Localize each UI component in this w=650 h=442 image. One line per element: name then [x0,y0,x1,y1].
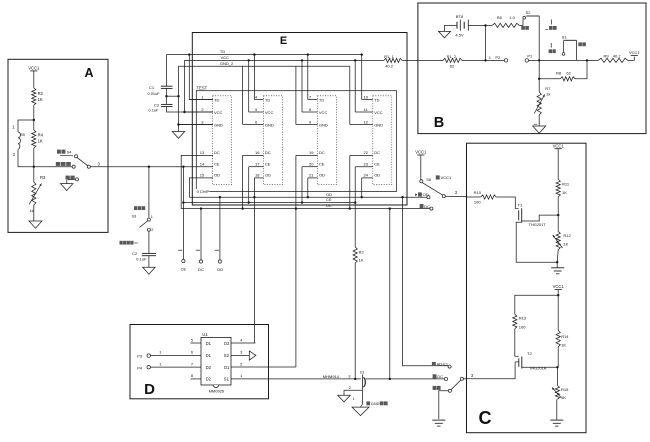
svg-text:CE: CE [326,197,332,202]
svg-text:1: 1 [353,397,355,401]
label pin 2 of R5 [13,152,16,157]
power VCC1 (C upper) [553,143,565,179]
wire VCC column block3 [301,60,303,112]
label 基准压 [56,162,71,166]
svg-text:O1: O1 [224,365,230,370]
junction R8 branch [586,59,588,61]
block2 pin 16 stub (DC) [243,150,271,155]
label pin 1 of R5 [12,124,15,129]
svg-text:D1: D1 [206,353,212,358]
region label A [84,66,93,80]
wire P1 rail [529,59,598,61]
svg-text:100: 100 [519,325,526,330]
svg-text:BT8: BT8 [456,14,464,19]
svg-text:GND: GND [374,122,383,127]
wire R1_1 to region B [402,59,418,61]
wire VCC1 to R13 [515,295,558,314]
svg-text:VCC: VCC [319,110,328,115]
block2 pin 5 stub (VCC) [249,107,274,115]
junction block4 DC rail [349,207,351,209]
block1 pin 3 stub (GND) [179,119,224,127]
ground (R15) [550,420,563,426]
svg-text:20: 20 [309,162,314,167]
resistor R1_2 62 [418,54,486,68]
variable resistor R7 1k [534,79,551,115]
svg-text:OD: OD [319,173,325,178]
svg-text:DC: DC [437,374,443,379]
svg-text:VCC: VCC [374,110,383,115]
svg-text:S1: S1 [224,377,230,382]
wire R4 top [33,120,35,130]
svg-text:100: 100 [474,200,481,205]
label MM0926 [209,389,225,394]
wire block2 CE column [248,167,250,203]
svg-text:P2: P2 [495,55,501,60]
svg-text:R2: R2 [38,91,44,96]
junction T1 drain node [557,214,559,216]
block3 pin 19 stub (DC) [296,150,325,155]
terminal CE wire [178,167,183,260]
wire node to switch contact [34,166,72,168]
junction block2 CE rail [248,201,250,203]
wire GND column block1 [178,66,180,131]
junction CE terminal [182,201,184,203]
switch S1 [562,35,577,56]
svg-text:40.2: 40.2 [385,63,394,68]
ground (C2) [143,267,156,274]
selector common [460,377,463,380]
svg-text:E: E [280,35,287,47]
svg-text:P1: P1 [527,53,533,58]
wire E1 to DC contact [366,378,445,380]
region box E [192,33,407,206]
resistor R11 1K [556,180,570,197]
svg-text:2: 2 [151,228,153,232]
junction R7/R8 [538,78,540,80]
svg-text:S4: S4 [67,150,73,155]
switch S4 blade [77,158,87,166]
junction TD block1 [188,53,190,55]
svg-text:23: 23 [364,162,369,167]
svg-text:40.2: 40.2 [613,54,622,59]
svg-text:CE: CE [374,162,380,167]
variable resistor R12 1K [553,215,572,262]
rail GND_2 [179,61,350,66]
label node 1 (B) [489,55,492,60]
region label B [434,115,444,131]
svg-text:R4: R4 [38,132,44,137]
wire DC rail to lower row [389,209,391,379]
resistor R6 1.0 [486,15,524,28]
svg-text:17: 17 [255,162,260,167]
svg-text:R3: R3 [40,175,46,180]
wire TD column block3 [307,55,309,100]
wire block4 DC column [349,155,351,208]
wire R15 to ground [556,399,558,419]
wire R2 to node [33,105,35,120]
IC U1 right labels [224,341,230,382]
IC U1 left labels [206,341,212,382]
svg-text:1: 1 [151,215,153,219]
wire S3 to C2 [148,231,150,253]
node R2/R4/R5 junction [33,119,35,121]
junction OD terminal [219,196,221,198]
svg-text:C1: C1 [149,85,155,90]
ground (T1 source) [551,262,564,274]
switch S5 blade [423,183,443,195]
svg-text:TEST: TEST [197,86,208,91]
ground (E1 pin1) [352,407,369,416]
svg-text:R5: R5 [20,132,26,137]
junction GND column upper [177,95,179,97]
svg-text:R6: R6 [497,15,503,20]
label MHM914 [323,374,340,379]
svg-text:1K: 1K [38,97,43,102]
connector P2 [486,55,508,62]
svg-text:12: 12 [364,119,369,124]
svg-text:GND: GND [214,122,223,127]
selector contact 接地 [448,389,451,392]
power VCC1 (B) [629,50,640,60]
wire link to GND column [167,95,179,97]
switch S3 contact 2 [147,228,153,232]
wire block3 OD column [307,178,309,197]
wire block4 OD column [361,178,363,197]
label 断开 (S1) [549,43,556,53]
svg-text:2: 2 [349,386,351,390]
wire block2 DC column [242,155,244,208]
svg-text:0.01uF: 0.01uF [148,91,161,96]
junction TD block4 [361,53,363,55]
label 接地 (selector) [433,386,441,390]
connector 接DC [420,204,433,210]
svg-text:0.1uF: 0.1uF [149,107,160,112]
wire OD to AD contact [403,197,449,366]
connector P4 [137,361,201,370]
junction block3 CE rail [301,201,303,203]
block4 pin 22 stub (DC) [350,150,380,155]
connector 接AD-E1 [432,362,451,368]
wire to S3 [148,167,150,218]
svg-text:10: 10 [364,94,369,99]
wire S1 to rail [576,40,578,60]
svg-text:GND: GND [371,402,380,406]
wire S2 to node rail [538,16,540,60]
test socket block 1 outline [213,96,232,185]
svg-text:U1: U1 [202,332,208,337]
label 接地 (S4) [66,176,75,180]
junction block4 OD rail [361,196,363,198]
svg-text:P3: P3 [137,354,143,359]
wire selector to region C [464,378,467,380]
wire C2 to ground [148,256,150,268]
svg-text:OD: OD [265,173,271,178]
label 接VCC1 [436,175,452,180]
block3 pin 7 stub (TD) [308,94,325,102]
wire S4 ground contact [66,180,68,184]
block1 pin 1 stub (TD) [189,94,219,102]
svg-text:3: 3 [348,374,350,378]
wire VCC1 to R14 [557,295,559,330]
ground (E1 pin2) [338,395,351,402]
svg-text:DC: DC [265,150,271,155]
wire C1 to C3 [166,96,168,104]
junction DC terminal [200,207,202,209]
block4 pin 23 stub (CE) [355,162,380,167]
wire R11 to drain node [557,197,559,215]
resistor R2 1K [32,88,44,105]
wire TD column block2 [253,55,255,100]
svg-text:R8: R8 [556,71,562,76]
wire TD column block4 [361,55,363,100]
svg-text:R11: R11 [562,182,570,187]
U1 pin 6 stub [191,350,194,355]
svg-text:18: 18 [255,173,260,178]
wire R10 to gate [496,197,515,209]
wire 接地 to ground [439,391,449,419]
wire R13 to T2 [514,329,516,357]
svg-text:DC: DC [198,267,204,272]
svg-text:TD: TD [265,97,270,102]
rail TD [167,49,362,54]
svg-text:R10: R10 [474,190,482,195]
svg-text:D: D [144,381,155,398]
junction block2 OD rail [253,196,255,198]
switch S3 blade [140,221,148,227]
block2 pin 6 stub (GND) [243,119,274,127]
terminal DC connector [198,260,204,272]
variable resistor R15 1K [552,367,569,400]
label 断开 (S2) [545,20,556,30]
wire VCC column block4 [354,60,356,112]
svg-text:22: 22 [364,150,369,155]
E1 pin 2 wire [344,386,362,395]
resistor R13 100 [513,314,527,329]
resistor R8 62 [539,60,587,81]
svg-text:R12: R12 [563,233,571,238]
U1 pin 8 stub [191,373,202,379]
junction block4 CE rail [354,201,356,203]
rail DC [181,203,430,208]
ground (selector) [432,420,445,426]
region label D [144,381,155,398]
IC U1 outline [201,332,231,385]
svg-text:D1: D1 [206,341,212,346]
resistor R4 1K [32,130,44,148]
resistor R2 1K (pulldown) [353,247,364,379]
svg-text:OD: OD [374,173,380,178]
svg-text:GND: GND [319,122,328,127]
wire GND pin3 stub [179,124,214,126]
svg-text:VCC1: VCC1 [441,175,452,180]
svg-text:D2: D2 [206,377,212,382]
connector 接OD [415,192,430,199]
rail CE [183,197,355,202]
junction OD to switch column [401,196,403,198]
label 断开电容 [120,241,138,245]
wire GND column block3 [295,66,297,124]
switch S2 [523,10,540,25]
label 闭合 (S2) [521,26,529,30]
junction C3/VCC column [183,111,185,113]
svg-text:S2: S2 [224,353,230,358]
junction T2 drain node [556,366,558,368]
capacitor C1 0.01uF [148,85,173,96]
connector 接DC (lower) [433,374,448,380]
junction GND pin3 [177,123,179,125]
terminal CE connector [181,259,187,271]
test socket block 2 outline [264,96,283,185]
wire S2 column to R7 [538,60,540,78]
svg-text:14: 14 [200,162,205,167]
region box A [8,59,108,232]
transistor T1 THG201T [515,202,558,227]
svg-text:GND: GND [265,122,274,127]
resistor R14 1K [556,331,569,348]
test socket block 4 outline [373,96,392,185]
svg-text:1.0: 1.0 [509,15,515,20]
resistor R10 100 [474,190,497,204]
U1 pin 3 stub [231,350,249,356]
svg-text:OD: OD [217,267,223,272]
junction block3 DC rail [295,207,297,209]
label node 3 [98,161,101,166]
svg-text:DC: DC [374,150,380,155]
U1 pin 1 wire [231,373,361,379]
svg-text:19: 19 [309,150,314,155]
svg-text:C: C [479,408,492,428]
switch S4 common [87,165,90,168]
wire TD rail corner [166,55,168,87]
svg-text:15: 15 [200,173,205,178]
region box B [418,3,646,134]
resistor R1_1 40.2 [384,54,402,68]
transistor T2 THG201A [515,351,557,370]
svg-text:DC: DC [326,203,332,208]
svg-text:TD: TD [319,97,324,102]
switch S4 contact 接地 [68,178,79,181]
svg-text:CE: CE [265,162,271,167]
svg-text:1K: 1K [561,343,566,348]
block2 pin 4 stub (TD) [254,94,270,102]
svg-text:THG201T: THG201T [529,222,547,227]
wire left branch top [18,120,34,132]
wire block4 CE column to R2 [354,167,356,247]
connector E1 [348,371,365,390]
svg-text:TD: TD [214,97,219,102]
connector P1 [525,53,533,62]
wire block2 OD column to U1 pin4 [253,178,255,343]
label 接电容 [134,206,145,210]
svg-text:R2: R2 [359,249,365,254]
node A divider junction [33,166,35,168]
battery BT8 4.5V [455,14,468,38]
wire R7 to ground [534,115,540,126]
junction block3 OD rail [307,196,309,198]
junction S3 branch [148,166,150,168]
svg-text:R14: R14 [561,334,569,339]
terminal OD connector [217,260,223,272]
terminal DC wire [196,209,201,260]
svg-text:O2: O2 [224,341,230,346]
svg-text:16: 16 [255,150,260,155]
wire VCC column block2 [248,60,250,112]
svg-text:21: 21 [309,173,314,178]
junction DC to lower switch column [389,207,391,209]
svg-text:CE: CE [319,162,325,167]
svg-text:13: 13 [200,150,205,155]
svg-text:D2: D2 [206,365,212,370]
svg-text:CE: CE [181,267,187,272]
svg-text:VCC1: VCC1 [629,50,640,55]
svg-text:T2: T2 [527,351,532,356]
svg-text:0 CHIP: 0 CHIP [197,189,210,194]
block1 pin 13 stub (DC) [181,150,220,208]
region label C [479,408,492,428]
buffer symbol (pin 3) [249,351,256,360]
label S6 [426,177,431,182]
wire battery node down [485,25,487,60]
power VCC1 (C lower) [553,284,565,295]
junction CE column [182,166,184,168]
U1 pin 5 stub [191,337,202,343]
svg-text:62: 62 [566,71,571,76]
ground (battery) [439,25,457,37]
svg-text:VCC1: VCC1 [553,284,565,289]
svg-text:R9: R9 [604,54,610,59]
svg-text:R15: R15 [561,387,569,392]
wire C1 to link [166,88,168,96]
resistor R9 40.2 [598,54,634,63]
block2 pin 17 stub (CE) [249,162,271,167]
svg-text:VCC: VCC [214,110,223,115]
svg-text:THG201A: THG201A [529,365,547,370]
power VCC1 (region A) [28,66,40,89]
svg-text:VCC: VCC [221,55,230,60]
wire battery to node [468,24,485,26]
svg-text:62: 62 [450,63,455,68]
junction node 1 [484,59,486,61]
wire left branch bottom [18,149,34,167]
rail VCC [185,55,385,60]
svg-text:C2: C2 [132,251,138,256]
svg-text:MM0926: MM0926 [209,389,225,394]
svg-text:R7: R7 [545,86,551,91]
wire GND column block4 [349,66,351,124]
wire VCC column block1 [185,60,214,112]
svg-text:MHM914: MHM914 [323,374,340,379]
wire block3 CE column [301,167,303,203]
switch S4 contact 基准压 [72,165,75,168]
test socket block 3 outline [318,96,337,185]
capacitor C2 0.1uF [132,251,156,261]
U1 pin 2 stub [231,361,296,367]
IC U1 bottom notch [213,385,218,388]
wire block3 DC column to U1 pin2 [295,155,297,367]
switch S3 contact 1 [132,215,153,222]
wire GND column block2 [242,66,244,124]
ground (region A) [29,221,42,228]
svg-text:DC: DC [214,150,220,155]
svg-text:S3: S3 [132,215,137,219]
block3 pin 21 stub (OD) [308,173,325,178]
svg-text:TD: TD [220,49,225,54]
svg-text:GND_2: GND_2 [220,61,234,66]
svg-text:OD: OD [326,192,332,197]
block1 pin 14 stub (CE) [200,162,220,167]
junction S2/rail [538,59,540,61]
ground (R7) [533,126,546,133]
